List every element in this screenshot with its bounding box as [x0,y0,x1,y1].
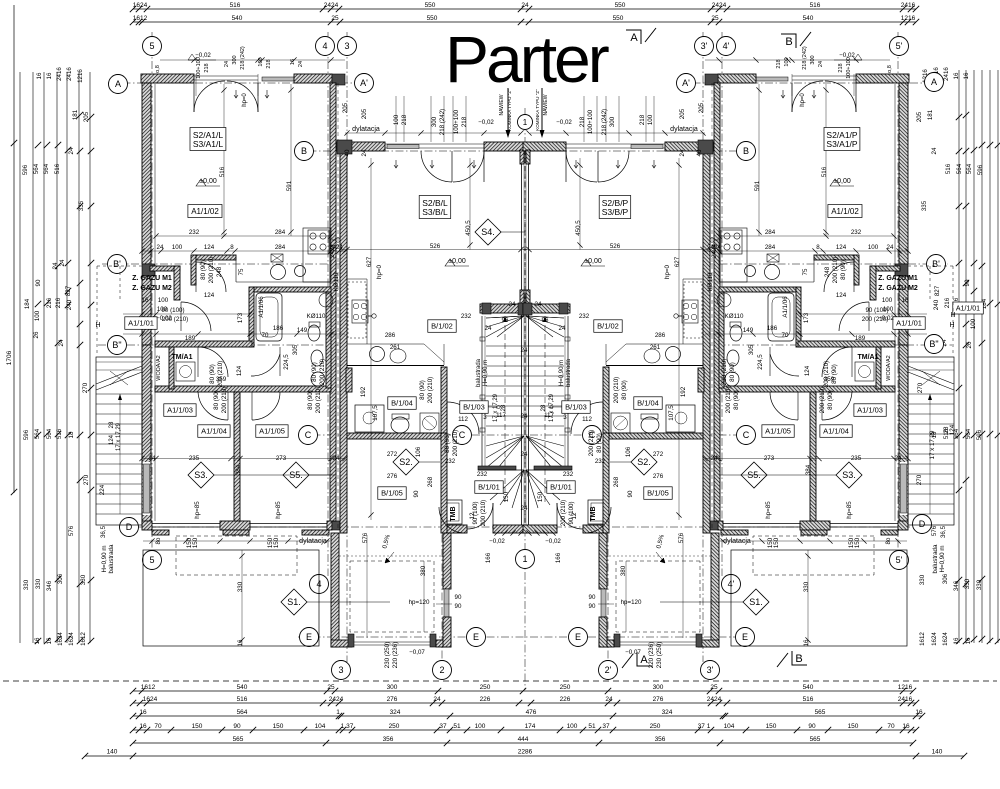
svg-text:A1/1/02: A1/1/02 [191,207,219,216]
svg-text:Z. GAZU M2: Z. GAZU M2 [878,285,918,292]
svg-text:516: 516 [219,166,226,177]
dim chain bottom row 5 [133,742,913,744]
svg-text:90: 90 [627,490,634,497]
svg-text:80 (90): 80 (90) [419,380,426,400]
hall bottom wall [493,525,527,533]
washbasin left unit [311,372,325,386]
svg-text:181: 181 [927,109,934,120]
dim line below D wall [143,540,330,542]
svg-text:150: 150 [767,537,774,548]
svg-text:16: 16 [965,637,972,644]
axis line C horizontal [298,434,752,436]
svg-text:284: 284 [275,229,286,236]
svg-text:80 (90): 80 (90) [311,362,318,382]
axis line D horizontal [119,526,931,528]
svg-text:4: 4 [322,41,327,51]
svg-text:75: 75 [802,268,809,275]
terrace vdim x242 [241,550,243,646]
svg-text:dylatacja: dylatacja [299,538,327,545]
appliance B/1/04 [420,413,439,433]
svg-text:B: B [785,36,792,48]
svg-text:150: 150 [273,537,280,548]
svg-text:330: 330 [919,574,926,585]
doors to rooms S3 and S5 [198,392,228,420]
svg-text:8: 8 [230,244,234,251]
svg-text:270: 270 [83,474,90,485]
svg-text:90: 90 [455,594,462,601]
svg-text:B": B" [112,340,121,350]
left unit left wall [899,83,908,264]
left unit top wall [141,74,194,83]
axis bubble 2' [599,661,618,680]
svg-text:hp=120: hp=120 [409,599,430,606]
bathroom left wall [796,287,801,347]
svg-text:balustrada: balustrada [476,358,482,387]
svg-text:−0,07: −0,07 [409,649,425,656]
kitchen annex counter left unit [303,228,331,282]
svg-text:2416: 2416 [66,67,73,81]
corridor dim lines [800,313,927,315]
svg-text:230 (250): 230 (250) [384,642,391,669]
svg-text:346: 346 [953,580,960,591]
svg-text:273: 273 [764,455,775,462]
svg-text:80 (90): 80 (90) [729,362,736,382]
svg-text:516: 516 [945,163,952,174]
left terrace dashed [176,536,297,575]
porch terrace dashed [350,561,434,632]
svg-text:WODA/A2: WODA/A2 [886,355,892,380]
axis line 5 vertical [151,32,153,550]
svg-text:balustrada: balustrada [932,544,939,573]
svg-text:16: 16 [142,297,149,304]
axis bubble 3 [338,37,357,56]
svg-text:S2.: S2. [399,457,413,467]
svg-text:240: 240 [933,299,940,310]
interior vdim x291 [758,84,760,236]
svg-text:dylatacja: dylatacja [352,126,380,133]
svg-text:dylatacja: dylatacja [670,126,698,133]
appliance B/1/04 [611,413,630,433]
axis bubble 3 [332,661,351,680]
svg-text:24: 24 [433,696,441,703]
svg-text:232: 232 [579,313,590,320]
svg-text:166: 166 [555,552,562,563]
svg-text:dylatacja: dylatacja [723,538,751,545]
canopy dashed outline left [952,266,954,353]
stair treads [526,345,564,347]
svg-text:90 (100): 90 (100) [161,307,184,314]
svg-text:−0,02: −0,02 [839,52,855,59]
svg-text:24: 24 [559,325,566,332]
svg-text:5': 5' [896,41,903,51]
room label boxes right unit [824,128,860,151]
svg-text:80 (90): 80 (90) [827,390,834,410]
interior vdim x291 [290,84,292,236]
svg-text:1 37: 1 37 [341,723,354,730]
window sill hatch under piers [152,530,169,535]
svg-text:37: 37 [439,723,447,730]
svg-text:75: 75 [238,268,245,275]
svg-text:24: 24 [521,347,528,354]
svg-text:80 (90): 80 (90) [444,433,451,453]
svg-text:−0,07: −0,07 [625,649,641,656]
svg-text:16: 16 [902,723,910,730]
left unit entry door arcs [825,81,856,112]
svg-text:306: 306 [57,573,64,584]
axis line A horizontal [108,82,372,84]
axis bubble 4 [316,37,335,56]
porch terrace dashed [616,561,700,632]
middle section left wall [703,151,710,533]
svg-text:117: 117 [496,412,506,419]
svg-text:218 (242): 218 (242) [240,46,246,70]
bathtub left unit [768,293,794,341]
svg-text:24: 24 [68,147,75,154]
svg-text:S3/A1/P: S3/A1/P [826,139,858,149]
svg-text:2424: 2424 [324,2,339,9]
svg-text:216: 216 [55,297,62,308]
middle section top door arc [421,151,452,182]
svg-text:24: 24 [333,455,340,462]
svg-text:226: 226 [560,696,571,703]
svg-text:200 (210): 200 (210) [315,387,322,414]
sink middle section [666,347,681,362]
axis bubble D [120,518,139,537]
svg-text:104: 104 [724,723,735,730]
canopy dashed outline left [96,266,98,353]
svg-text:hp=85: hp=85 [194,501,201,519]
svg-text:232: 232 [445,458,456,465]
svg-text:hp=85: hp=85 [846,501,853,519]
bathroom B/1/04 walls [347,433,441,439]
svg-text:16: 16 [34,637,41,644]
axis bubble B' [927,255,946,274]
svg-text:90: 90 [589,603,596,610]
svg-text:200 (210): 200 (210) [613,377,620,404]
svg-text:150: 150 [273,723,284,730]
svg-text:149: 149 [743,327,754,334]
svg-text:444: 444 [518,736,529,743]
svg-text:286: 286 [655,332,666,339]
bathroom left wall [249,287,254,347]
axis line 4' vertical [721,32,723,576]
axis line B' horizontal [102,263,345,265]
shower B/1/04 [666,405,695,432]
svg-text:576: 576 [931,525,938,536]
building graphics right half (mirrored) [523,57,954,647]
svg-text:3: 3 [344,41,349,51]
svg-text:380: 380 [420,565,427,576]
boiler left unit [717,293,731,307]
svg-text:261: 261 [650,344,661,351]
svg-text:205: 205 [679,108,686,119]
svg-text:2': 2' [605,665,612,675]
stairwell balustrade [481,316,483,470]
svg-text:124: 124 [204,244,215,251]
svg-text:2416: 2416 [901,2,916,9]
axis bubble B' [108,255,127,274]
toilet left unit [308,325,320,341]
diamond labels [188,462,214,488]
kitchen counter middle section [347,278,367,280]
axis bubble C [737,426,756,445]
washer TMB in hall [444,500,462,524]
svg-text:250: 250 [480,684,491,691]
svg-text:2286: 2286 [518,749,533,756]
axis line 2 vertical [441,520,443,662]
svg-text:H=0,90 m: H=0,90 m [483,360,489,386]
svg-text:A1/1/04: A1/1/04 [201,427,227,436]
middle section left wall [340,151,347,533]
svg-text:330: 330 [23,579,30,590]
stair bottom flight [478,466,516,470]
svg-text:150: 150 [192,723,203,730]
svg-text:450,5: 450,5 [465,220,472,236]
svg-text:335: 335 [921,200,928,211]
left unit right wall / expansion joint [330,83,336,521]
stairwell balustrade [567,316,569,470]
svg-text:A1/1/05: A1/1/05 [765,427,791,436]
svg-text:1216: 1216 [898,684,913,691]
svg-text:2424: 2424 [707,696,722,703]
left unit bottom wall D [142,521,152,530]
svg-text:S1.: S1. [749,597,763,607]
svg-text:268: 268 [427,476,434,487]
svg-text:150: 150 [192,537,199,548]
svg-text:174: 174 [525,723,536,730]
right margin room label A1/1/01 [953,302,984,314]
axis bubble B [737,142,756,161]
interior vdim middle 450,5 [469,158,471,250]
svg-text:564: 564 [46,428,53,439]
svg-text:224,5: 224,5 [283,354,290,370]
axis bubble E [467,628,486,647]
svg-text:16: 16 [803,639,810,646]
svg-text:E: E [306,632,312,642]
svg-text:218: 218 [204,63,210,72]
svg-text:B: B [743,146,749,156]
svg-text:516: 516 [230,2,241,9]
svg-text:KØ110: KØ110 [307,313,326,320]
svg-text:150: 150 [773,537,780,548]
axis bubble C [453,426,472,445]
svg-text:2424: 2424 [329,244,336,258]
window sill marks top wall [234,90,238,98]
svg-text:526: 526 [610,243,621,250]
svg-text:D: D [126,522,133,532]
svg-text:218 (242): 218 (242) [439,109,446,136]
counter dashed middle [702,367,704,433]
svg-text:100+100: 100+100 [846,57,852,79]
svg-text:Parter: Parter [445,22,609,96]
svg-text:24: 24 [521,2,529,9]
svg-text:200 (210): 200 (210) [832,257,839,284]
stair walk line [504,316,506,505]
svg-text:100: 100 [34,310,41,321]
svg-text:270: 270 [82,382,89,393]
svg-text:24: 24 [298,61,304,67]
svg-text:224: 224 [99,484,106,495]
svg-text:300: 300 [387,684,398,691]
window in west wall S3 room [900,462,907,515]
svg-text:KØ110: KØ110 [725,313,744,320]
svg-text:100+100: 100+100 [196,57,202,79]
svg-text:220 (236): 220 (236) [392,642,399,669]
svg-text:218: 218 [838,63,844,72]
svg-text:232: 232 [563,471,574,478]
interior vdim x224 [825,84,827,236]
svg-text:25: 25 [331,15,339,22]
svg-text:230 (250): 230 (250) [656,642,663,669]
axis bubble 1 top [518,115,533,130]
middle section top wall [665,142,713,151]
svg-text:1: 1 [522,554,527,564]
dim chain bottom row 2 [133,702,916,704]
fixture wall right [326,292,331,388]
porch bottom wall [331,640,352,647]
svg-text:140: 140 [107,749,118,756]
axis line 2' vertical [607,520,609,662]
svg-text:124: 124 [804,365,811,376]
svg-text:284: 284 [275,244,286,251]
svg-text:5': 5' [896,555,903,565]
svg-text:H: H [949,322,954,329]
svg-text:124: 124 [836,292,847,299]
left terrace outline [143,550,319,646]
svg-text:205: 205 [698,102,705,113]
svg-text:216: 216 [46,297,53,308]
doors to rooms S3 and S5 [822,392,852,420]
axis bubble 4' [717,37,736,56]
svg-text:S3/B/L: S3/B/L [422,207,448,217]
middle section top wall [337,142,385,151]
left exterior staircase [908,357,954,525]
svg-text:90: 90 [964,279,971,286]
svg-text:C: C [305,430,312,440]
svg-text:218: 218 [401,114,408,125]
counter dashed middle [346,367,348,433]
axis bubble B" [925,335,944,354]
svg-text:100+100: 100+100 [587,109,594,134]
svg-text:40: 40 [696,149,703,156]
svg-text:A': A' [360,78,368,88]
sinks left unit [765,265,780,280]
B/1/03 leader circle [488,406,497,408]
svg-text:273: 273 [276,455,287,462]
door to terrace room [439,507,465,533]
svg-text:90: 90 [589,594,596,601]
svg-text:2424: 2424 [329,696,344,703]
svg-text:3: 3 [483,414,487,421]
svg-text:4': 4' [723,41,730,51]
svg-text:Z. GAZU M1: Z. GAZU M1 [878,275,918,282]
svg-text:270: 270 [916,474,923,485]
svg-text:224,5: 224,5 [757,354,764,370]
svg-text:205: 205 [342,102,349,113]
window sill marks top wall [812,90,816,98]
svg-text:150: 150 [848,723,859,730]
svg-text:8: 8 [816,244,820,251]
svg-text:335: 335 [78,200,85,211]
svg-text:25: 25 [710,684,718,691]
stair walk line exterior [929,394,931,514]
gas point symbols [710,238,714,242]
svg-text:17 x 17,29: 17 x 17,29 [116,422,122,451]
svg-text:346: 346 [46,580,53,591]
stair winders bottom [526,436,564,446]
svg-text:565: 565 [233,736,244,743]
kitchen annex counter left unit [719,228,747,282]
svg-text:Z. GAZU M1: Z. GAZU M1 [132,275,172,282]
svg-text:B/1/03: B/1/03 [463,403,485,412]
svg-text:28: 28 [541,404,547,411]
B/1/03 leader circle [553,406,562,408]
svg-text:181: 181 [72,109,79,120]
svg-text:KOMINKA TYPU "Z": KOMINKA TYPU "Z" [535,89,540,131]
section marker A top [626,28,656,44]
svg-text:384: 384 [805,464,812,475]
kitchen counter middle section [683,278,703,280]
svg-text:192: 192 [680,386,687,397]
svg-text:80 (90): 80 (90) [831,364,838,384]
svg-text:564: 564 [966,163,973,174]
svg-text:200 (210): 200 (210) [819,387,826,414]
stair break symbol [96,361,142,363]
gas closet walls [150,266,180,271]
svg-text:±0,00: ±0,00 [584,258,602,265]
left unit bottom wall D [898,521,908,530]
svg-text:±0,00: ±0,00 [448,258,466,265]
svg-text:NAWIEW: NAWIEW [499,94,505,115]
svg-text:S3.: S3. [842,470,856,480]
svg-text:232: 232 [189,229,200,236]
svg-text:218: 218 [639,114,646,125]
svg-text:70: 70 [782,332,789,339]
svg-text:300: 300 [431,116,438,127]
svg-text:70: 70 [887,723,895,730]
svg-text:124: 124 [236,365,243,376]
svg-text:324: 324 [662,709,673,716]
svg-text:12: 12 [571,512,578,519]
svg-text:40: 40 [344,149,351,156]
axis bubble 5 [143,37,162,56]
porch right wall [599,533,607,589]
svg-text:272: 272 [387,451,398,458]
svg-text:80 (90): 80 (90) [840,260,847,280]
svg-text:205: 205 [361,108,368,119]
svg-text:330: 330 [35,578,42,589]
svg-text:173: 173 [803,312,810,323]
svg-text:564: 564 [956,163,963,174]
hall entry door arc [557,503,583,529]
svg-text:330: 330 [803,581,810,592]
svg-text:150: 150 [537,491,544,502]
svg-text:192: 192 [360,386,367,397]
dim chain bottom row 6 [85,755,964,757]
svg-text:627: 627 [366,256,373,267]
svg-text:1624: 1624 [931,632,938,646]
svg-text:E: E [473,632,479,642]
porch right wall [443,533,451,589]
svg-text:hp=85: hp=85 [275,501,282,519]
svg-text:16: 16 [237,639,244,646]
washer strip door arcs [198,347,228,377]
svg-text:A1/1/02: A1/1/02 [831,207,859,216]
stove middle section [352,300,368,323]
svg-text:−0,02: −0,02 [195,52,211,59]
interior wall between S3 and S5 [234,392,240,521]
svg-text:232: 232 [851,229,862,236]
